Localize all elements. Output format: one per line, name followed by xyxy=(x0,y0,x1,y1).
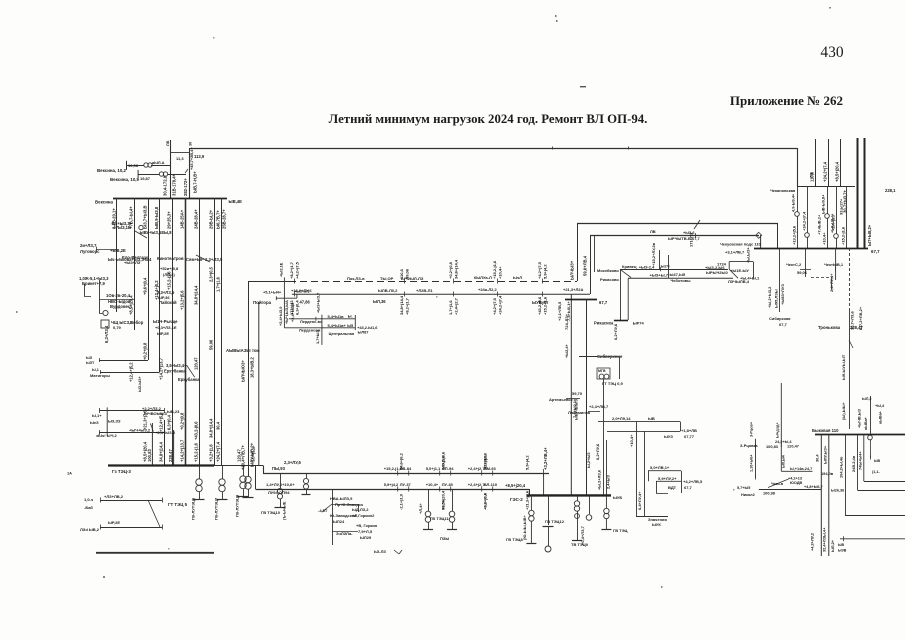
svg-text:ЫЛ,2+: ЫЛ,2+ xyxy=(830,539,835,552)
label rotated near box left xyxy=(241,357,255,470)
measurement ticks L1 set 2 xyxy=(426,466,455,476)
measurement tick pair tie lines 2 xyxy=(399,268,410,315)
label v755 texts xyxy=(740,421,779,472)
svg-text:ЫВ-Ы9,8+: ЫВ-Ы9,8+ xyxy=(821,194,826,214)
label Lugovors xyxy=(80,243,126,254)
svg-text:Луговорс: Луговорс xyxy=(80,249,100,254)
wire byk right drop b xyxy=(857,435,859,491)
label YUV right xyxy=(599,300,608,305)
svg-text:1А: 1А xyxy=(67,471,72,476)
diagram title xyxy=(329,112,648,126)
label chek drop 2 xyxy=(824,262,844,292)
label TEC3 feeder load 1 xyxy=(143,441,148,462)
svg-text:100,83: 100,83 xyxy=(147,449,152,462)
label bus right 67,7 xyxy=(871,249,880,254)
wire K1 right v xyxy=(680,422,682,432)
wire riser Veksina right xyxy=(189,148,191,198)
label cluster Velgark xyxy=(122,255,149,265)
wire sibverkh branch xyxy=(597,357,620,380)
scan speck xyxy=(103,576,105,578)
svg-text:Чеботовы: Чеботовы xyxy=(671,278,692,283)
svg-text:120,47: 120,47 xyxy=(194,357,199,370)
svg-text:ЫЛ24: ЫЛ24 xyxy=(333,519,345,524)
label feeder V9 loading xyxy=(216,210,221,229)
svg-text:Ы47,Ы5: Ы47,Ы5 xyxy=(670,272,686,277)
label feeder V4 loading xyxy=(154,206,159,229)
wire moseykovo line 1 xyxy=(620,269,728,271)
wire lower bracket 1 xyxy=(106,407,108,435)
bus Chekuevskaya xyxy=(754,248,868,250)
wire dashed tie line xyxy=(248,281,577,283)
label sibverkh xyxy=(597,354,623,359)
label TEC3 feeder load 6 xyxy=(194,442,199,462)
svg-text:+4,2+j7,5: +4,2+j7,5 xyxy=(492,297,497,315)
svg-text:+4,2+j7,5: +4,2+j7,5 xyxy=(537,261,542,279)
svg-text:24В-28,4+: 24В-28,4+ xyxy=(194,209,199,229)
svg-text:+12,4+j5,2: +12,4+j5,2 xyxy=(129,362,134,382)
svg-text:194,2+Ы,4в: 194,2+Ы,4в xyxy=(839,456,844,478)
scan speck xyxy=(16,311,18,313)
scan speck xyxy=(829,7,831,9)
label drop C xyxy=(440,536,449,541)
svg-text:+Ы1Е-ЫУ: +Ы1Е-ЫУ xyxy=(730,268,749,273)
label v781 texts xyxy=(782,444,799,469)
svg-text:ВДТ: ВДТ xyxy=(668,485,677,490)
svg-text:228,1: 228,1 xyxy=(885,188,896,193)
wire mos vertical left drop 2 xyxy=(627,278,629,320)
svg-text:29В-Ы,2+: 29В-Ы,2+ xyxy=(209,209,214,229)
svg-text:аЫВа+: аЫВа+ xyxy=(879,410,883,424)
svg-text:34,8+j14,4: 34,8+j14,4 xyxy=(194,285,199,305)
svg-text:Лерденсам: Лерденсам xyxy=(299,328,321,333)
svg-text:аЫВа+: аЫВа+ xyxy=(864,416,868,430)
label top-right riser 3 xyxy=(835,161,840,182)
svg-text:ЛВ: ЛВ xyxy=(166,140,170,146)
wire left feeder V12 xyxy=(173,430,175,466)
label header drop D3 xyxy=(822,232,827,245)
svg-text:+ЫЗ+Ы,7: +ЫЗ+Ы,7 xyxy=(650,273,669,278)
svg-text:ЫЧВОЫЫЗ: ЫЧВОЫЫЗ xyxy=(144,411,167,416)
wire artemev tick xyxy=(566,398,580,400)
svg-text:З-Рцовка: З-Рцовка xyxy=(740,443,758,448)
svg-text:+8,2+j1,7: +8,2+j1,7 xyxy=(289,261,294,279)
label lower branch1 texts xyxy=(90,413,176,438)
wire TEC3 bus step xyxy=(263,466,265,474)
label rotated 63 xyxy=(104,325,109,343)
svg-text:+Ы2-Ы1: +Ы2-Ы1 xyxy=(294,289,310,294)
label Matigory xyxy=(90,368,111,378)
svg-text:ЛВ: ЛВ xyxy=(810,172,814,178)
label tree rotated 5 xyxy=(194,285,199,305)
label feeder V10 loading xyxy=(222,209,227,229)
svg-text:Ы.: Ы. xyxy=(348,314,353,319)
svg-text:ЫчЛ: ЫчЛ xyxy=(513,275,522,280)
label tree rotated 9 xyxy=(143,342,148,360)
label bottom-right line xyxy=(838,543,847,553)
label GES e xyxy=(613,528,628,533)
svg-text:171+ЛЗ: 171+ЛЗ xyxy=(689,232,694,247)
svg-text:ЫУК: ЫУК xyxy=(652,522,661,527)
svg-text:ЫР,2Е: ЫР,2Е xyxy=(157,331,169,336)
svg-text:Лайский: Лайский xyxy=(159,300,177,305)
svg-text:Пойгора: Пойгора xyxy=(253,300,272,305)
svg-text:+21,3+Л2А: +21,3+Л2А xyxy=(563,287,583,292)
svg-text:ГТ ТЭЦ 0,9: ГТ ТЭЦ 0,9 xyxy=(602,381,623,386)
svg-text:+45,7+2В,4+: +45,7+2В,4+ xyxy=(189,147,194,170)
wire lower branch 2b xyxy=(100,525,163,530)
svg-text:Рикасиха: Рикасиха xyxy=(594,321,614,326)
label rikasovo xyxy=(600,277,619,282)
svg-text:+Ы,2+ЛЗ,6: +Ы,2+ЛЗ,6 xyxy=(597,469,602,490)
svg-text:+24,2+j7,4: +24,2+j7,4 xyxy=(216,441,221,462)
wire mos left diag xyxy=(620,269,631,277)
generator drop GES a xyxy=(526,495,536,543)
wire left feeder V4 xyxy=(159,198,161,372)
wire header drop D2 xyxy=(805,186,810,248)
svg-text:+0,2+j0,8: +0,2+j0,8 xyxy=(180,412,185,430)
svg-text:30,4: 30,4 xyxy=(216,421,221,430)
wire central v322 xyxy=(321,315,323,345)
svg-text:34,8+j14,4: 34,8+j14,4 xyxy=(454,259,459,279)
svg-text:ЗчЛЗЛа-: ЗчЛЗЛа- xyxy=(336,531,353,536)
label top-right riser 1 xyxy=(810,171,815,182)
wire top-right header bus xyxy=(797,186,855,188)
svg-text:(Ы),ЫЫ+: (Ы),ЫЫ+ xyxy=(841,401,846,420)
svg-text:Вексина, 10,2: Вексина, 10,2 xyxy=(97,168,127,173)
svg-text:Никол2: Никол2 xyxy=(741,493,755,497)
label cluster ChSh xyxy=(111,320,133,330)
svg-text:МГВ: МГВ xyxy=(598,369,606,373)
label tree rotated 6 xyxy=(209,266,214,282)
label box right riser rotated xyxy=(564,313,579,420)
label header drop D1 xyxy=(792,225,797,245)
wire header drop D1 xyxy=(795,186,800,248)
label generator G1 xyxy=(191,497,196,520)
label lapominka xyxy=(568,404,609,415)
wire header drop D4 xyxy=(834,186,839,248)
label branch y360 xyxy=(86,356,95,365)
label upper cluster x870 xyxy=(862,397,885,430)
wire K1 drop a xyxy=(636,422,638,516)
label tree rotated 13 xyxy=(159,412,164,432)
label near step xyxy=(263,289,310,295)
label YUVust xyxy=(532,300,548,305)
svg-text:+ЫЗ+ЛЗ: +ЫЗ+ЛЗ xyxy=(124,260,141,265)
label feeder V3 loading xyxy=(143,205,148,229)
svg-text:ПЫ,93: ПЫ,93 xyxy=(272,466,286,471)
wire upper tie 1 xyxy=(590,235,759,237)
svg-text:ГВ-ЛУТЭЦ6: ГВ-ЛУТЭЦ6 xyxy=(191,497,196,520)
label riser top marks xyxy=(166,140,193,146)
svg-text:+15,2-j1,6: +15,2-j1,6 xyxy=(492,260,497,279)
bus Rikasikha xyxy=(614,320,628,322)
svg-text:+0,3+ЛЗ,1Е: +0,3+ЛЗ,1Е xyxy=(155,325,177,330)
label byk diag xyxy=(771,477,803,487)
svg-text:ЫЗТ: ЫЗТ xyxy=(86,361,95,365)
wire lower branch 1a xyxy=(99,408,165,413)
label Veksina 10,2 xyxy=(97,163,139,173)
wire stub bracket upper xyxy=(126,161,128,170)
svg-text:1,7+j1,6: 1,7+j1,6 xyxy=(448,300,453,315)
label top-right riser 2 xyxy=(823,161,828,182)
label GES c xyxy=(571,525,589,547)
label rotated between L1 ticks 1 xyxy=(399,451,446,470)
diamond isolator tie1 xyxy=(756,232,762,238)
label tronkova chain rotated xyxy=(841,354,846,420)
wire byk horiz 471 xyxy=(781,470,812,472)
svg-text:74Ы+Ы4+: 74Ы+Ы4+ xyxy=(858,451,863,470)
svg-text:+14,2+j13,7: +14,2+j13,7 xyxy=(180,439,185,462)
label TEC3 feeder load 4 xyxy=(168,449,173,462)
svg-text:+1,8+ЛВ: +1,8+ЛВ xyxy=(681,428,697,433)
svg-text:+8,5+j20,4: +8,5+j20,4 xyxy=(441,490,446,510)
svg-text:2,0+Л9,14: 2,0+Л9,14 xyxy=(612,416,631,421)
label cluster Briket xyxy=(79,276,109,286)
svg-text:31В-178,4+: 31В-178,4+ xyxy=(172,173,177,196)
svg-text:+8,5+j20,4: +8,5+j20,4 xyxy=(835,161,840,182)
label byk drops rotated xyxy=(810,445,836,552)
svg-text:1Ов-2в-20,4: 1Ов-2в-20,4 xyxy=(106,293,131,298)
scan speck xyxy=(436,296,438,298)
scan speck xyxy=(661,586,663,588)
svg-text:67,77: 67,77 xyxy=(684,434,695,439)
svg-text:Чкво-в: Чкво-в xyxy=(771,482,784,486)
measurement ticks L2 set 2 xyxy=(426,482,454,492)
svg-text:+2,4+ЛВ,7: +2,4+ЛВ,7 xyxy=(589,404,609,409)
wire chek drop 1 xyxy=(800,248,811,277)
svg-text:25В-28,7+: 25В-28,7+ xyxy=(222,209,227,229)
wire mos riser b xyxy=(668,255,670,278)
label rikasikha xyxy=(594,321,645,326)
wire poygora step xyxy=(276,294,297,300)
svg-text:ЫЛУ-ЫВ,2+: ЫЛУ-ЫВ,2+ xyxy=(250,442,255,467)
measurement tick pair tie lines 3 xyxy=(448,259,459,315)
svg-text:228,47: 228,47 xyxy=(850,325,863,330)
svg-text:Летний минимум нагрузок 2024 г: Летний минимум нагрузок 2024 год. Ремонт… xyxy=(329,112,648,126)
scan speck xyxy=(555,15,558,22)
svg-text:30: 30 xyxy=(189,142,193,146)
wire K2 line b xyxy=(656,481,681,493)
svg-text:Мосейково: Мосейково xyxy=(597,268,619,273)
label rikasikha rotated xyxy=(613,323,618,340)
svg-text:+3,2+j1,6: +3,2+j1,6 xyxy=(209,444,214,462)
bus TEC-3 xyxy=(108,464,263,466)
svg-text:аЫЛ-А: аЫЛ-А xyxy=(152,161,165,165)
generator drop GES e xyxy=(601,495,611,529)
svg-text:5,9+ЛУ,2+: 5,9+ЛУ,2+ xyxy=(658,476,677,481)
wire tronkova chain xyxy=(849,310,853,429)
label below bus left xyxy=(725,250,745,255)
svg-text:ТЫ,ОР: ТЫ,ОР xyxy=(380,276,394,281)
label zavod texts xyxy=(318,496,378,540)
svg-text:Матигоры: Матигоры xyxy=(90,373,111,378)
svg-text:ГТ ТЭЦ 5: ГТ ТЭЦ 5 xyxy=(168,502,188,507)
wire central arm2 xyxy=(284,326,355,330)
label bus right end xyxy=(229,199,243,204)
wire bracket briket xyxy=(84,284,91,297)
label rotated y372 xyxy=(138,376,142,392)
label riser rotated a xyxy=(570,260,575,280)
wire upper stub tail xyxy=(151,165,170,167)
label feeder V8 loading xyxy=(209,209,214,229)
label tree rotated 10 xyxy=(159,357,164,380)
label byk circle drop xyxy=(872,459,881,474)
svg-text:+ЫВ,2Е: +ЫВ,2Е xyxy=(110,248,126,253)
wire K1 line b xyxy=(607,430,680,432)
svg-text:+ЛЗ+ЛВ,2: +ЛЗ+ЛВ,2 xyxy=(104,494,124,499)
svg-text:67,7: 67,7 xyxy=(779,322,788,327)
svg-text:ЫР74: ЫР74 xyxy=(633,321,645,326)
label rotated below L2 ticks 1 xyxy=(399,493,446,510)
svg-text:7,4+Ы0,1+: 7,4+Ы0,1+ xyxy=(572,398,577,418)
svg-text:+Ы83+ЛУЗ: +Ы83+ЛУЗ xyxy=(780,284,785,305)
svg-text:+Ы,4: +Ы,4 xyxy=(875,404,885,408)
label plus13 xyxy=(291,288,312,293)
label generator G3 xyxy=(235,494,240,517)
svg-text:24В-2,4в: 24В-2,4в xyxy=(851,455,856,472)
svg-text:120,47: 120,47 xyxy=(787,444,799,449)
svg-text:Ы9-ЫУЫ,ЫТ: Ы9-ЫУЫ,ЫТ xyxy=(841,354,846,380)
label TEC3 feeder load 2 xyxy=(147,449,152,462)
svg-text:+10,4+: +10,4+ xyxy=(822,232,827,245)
svg-text:7,9+Л,5: 7,9+Л,5 xyxy=(358,529,373,534)
svg-text:Вексина: Вексина xyxy=(95,200,114,205)
wire byk diag xyxy=(768,479,789,488)
svg-text:ЫД,ЛЗ,2: ЫД,ЛЗ,2 xyxy=(352,507,369,512)
label GES b xyxy=(545,519,565,524)
svg-text:+2,4+ЫЗ,3: +2,4+ЫЗ,3 xyxy=(155,430,176,435)
label L1 left labels xyxy=(272,460,302,471)
svg-text:ЫУЗ: ЫУЗ xyxy=(664,434,673,439)
label sibirskaya name xyxy=(769,316,791,327)
label chekanovskaya xyxy=(770,188,796,193)
generator drop B x428 xyxy=(418,489,433,530)
svg-text:18,3+ЫВ,2: 18,3+ЫВ,2 xyxy=(250,357,255,378)
svg-text:3-Рцов+: 3-Рцов+ xyxy=(750,421,754,437)
label risers extra rotated xyxy=(564,344,611,490)
label drop B xyxy=(430,516,449,521)
wire sibirskaya drop xyxy=(779,248,781,312)
svg-text:14,6+j6,2: 14,6+j6,2 xyxy=(399,452,404,470)
wire left feeder V5 xyxy=(172,198,174,466)
label feeder V2 loading xyxy=(129,206,134,229)
wire bereznik diag xyxy=(187,365,195,377)
svg-text:+2,4+j2,7: +2,4+j2,7 xyxy=(831,213,836,231)
svg-text:ГВ ТЭЦ8: ГВ ТЭЦ8 xyxy=(506,537,523,542)
wire box right riser down xyxy=(570,294,572,495)
svg-text:ГВ ТЭЦ: ГВ ТЭЦ xyxy=(613,528,628,533)
label tree rotated 16 xyxy=(209,418,214,438)
svg-text:Ы,2+ЫЗ: Ы,2+ЫЗ xyxy=(586,452,591,468)
svg-text:ГВ-ЛУТЭЦ8: ГВ-ЛУТЭЦ8 xyxy=(235,494,240,517)
svg-text:Брикет+7,9: Брикет+7,9 xyxy=(82,281,105,286)
label horiz471 xyxy=(790,467,834,476)
wire header drop D5 xyxy=(846,186,848,248)
svg-text:+13,2+j5,6: +13,2+j5,6 xyxy=(792,225,797,245)
svg-text:ЫРЫЧ2Ы0: ЫРЫЧ2Ы0 xyxy=(706,270,728,275)
wire left feeder V3 xyxy=(148,198,150,360)
generator drop C x452 xyxy=(447,489,457,530)
svg-text:Приложение № 262: Приложение № 262 xyxy=(730,93,843,108)
measurement tick pair tie lines 5 xyxy=(537,261,548,315)
label TEC3 feeder load 8 xyxy=(216,441,221,462)
svg-text:ЛВ: ЛВ xyxy=(650,229,656,234)
svg-text:ЫеЗ: ЫеЗ xyxy=(90,420,99,425)
wire left feeder V11 xyxy=(164,420,166,466)
label bus Veksina xyxy=(95,200,114,205)
label tree rotated 1 xyxy=(143,277,148,295)
label cluster Vurdovest xyxy=(106,293,132,309)
label rotated below yuv xyxy=(557,301,571,321)
svg-text:Быковая 110: Быковая 110 xyxy=(812,428,839,433)
svg-text:Рикасово: Рикасово xyxy=(600,277,619,282)
wire upper cluster x870 xyxy=(870,396,872,435)
svg-text:34,8+j14,4: 34,8+j14,4 xyxy=(399,295,404,315)
wire top-right corner drop xyxy=(797,148,799,186)
label riser rotated b xyxy=(583,255,588,276)
svg-text:Ы7+Ы8,2+: Ы7+Ы8,2+ xyxy=(867,224,872,246)
svg-text:ГВ ТЭЦ10: ГВ ТЭЦ10 xyxy=(261,510,281,515)
wire K1 line a xyxy=(598,421,680,423)
label rotated below L2 ticks 2 xyxy=(441,490,488,510)
svg-text:+ЫЗ-2,4: +ЫЗ-2,4 xyxy=(639,265,655,270)
svg-text:6,2+ЛУ,6: 6,2+ЛУ,6 xyxy=(613,323,618,340)
label solid line names xyxy=(378,287,583,293)
svg-text:59,06: 59,06 xyxy=(405,268,410,279)
wire mos riser a xyxy=(659,250,661,269)
svg-text:ЛУ-37: ЛУ-37 xyxy=(400,482,412,487)
label TEC3 feeder load 5 xyxy=(180,439,185,462)
svg-text:47,86: 47,86 xyxy=(300,300,311,305)
label Veksina 10,9 xyxy=(110,176,151,182)
breaker circle left low xyxy=(99,310,108,315)
svg-text:НВА-ЫЛЗ,9: НВА-ЫЛЗ,9 xyxy=(330,496,353,501)
svg-text:6,3+j0,4: 6,3+j0,4 xyxy=(167,414,172,430)
label tree rotated 2 xyxy=(154,280,159,300)
wire K2 right v xyxy=(656,471,682,494)
svg-text:5,4+Ы1в+: 5,4+Ы1в+ xyxy=(328,323,347,328)
svg-text:Ы2Ч: Ы2Ч xyxy=(661,264,670,269)
svg-text:ЫУВуст: ЫУВуст xyxy=(532,300,548,305)
measurement tick pair tie lines 4 xyxy=(492,260,503,315)
measurement ticks L2 set 1 xyxy=(384,482,412,492)
svg-text:Ы26,36: Ы26,36 xyxy=(831,489,844,493)
wire line L2 xyxy=(256,489,530,491)
wire branch y360 xyxy=(99,358,148,362)
wire left feeder V1 xyxy=(116,198,118,312)
svg-text:ЫВ,9-ЫЗ,8: ЫВ,9-ЫЗ,8 xyxy=(154,206,159,229)
bus GES-2 xyxy=(527,494,611,496)
label tronkova xyxy=(818,325,863,330)
svg-text:59,6+ЛВ,4: 59,6+ЛВ,4 xyxy=(583,255,588,276)
svg-text:+14,2+j13,7: +14,2+j13,7 xyxy=(159,357,164,380)
svg-text:+Л,4+: +Л,4+ xyxy=(418,503,423,514)
svg-text:+0,2+j0,8: +0,2+j0,8 xyxy=(143,342,148,360)
svg-text:19,87: 19,87 xyxy=(140,176,151,181)
svg-text:33,Ы27+: 33,Ы27+ xyxy=(839,198,844,215)
svg-text:+3,2+ЛВ,4+: +3,2+ЛВ,4+ xyxy=(543,447,548,470)
breaker circle byk xyxy=(868,435,873,459)
svg-text:1,7+j1,6: 1,7+j1,6 xyxy=(483,455,488,470)
svg-text:+Ы,2+Ы3,2: +Ы,2+Ы3,2 xyxy=(767,286,772,308)
label tree rotated 19 xyxy=(143,410,148,430)
svg-text:5,9+j4,2: 5,9+j4,2 xyxy=(543,264,548,279)
wire drop Zavod xyxy=(332,489,334,545)
measurement ticks L2 set 3 xyxy=(468,482,498,492)
label rotated below L2 ticks 3 xyxy=(483,490,530,510)
wire chek drop dash xyxy=(811,277,832,290)
svg-text:30,4-172,8: 30,4-172,8 xyxy=(163,175,168,196)
